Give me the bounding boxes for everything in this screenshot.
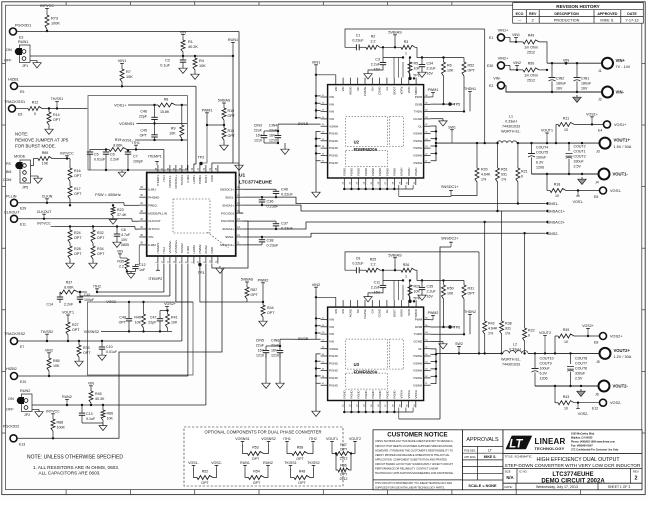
svg-text:VOSNS2-: VOSNS2- (168, 240, 172, 253)
U1 bottom pin ILIM2 (187, 256, 189, 264)
svg-text:VIN: VIN (341, 309, 345, 314)
capacitor C35 2.2uF (421, 280, 423, 287)
U2 left pin VIN (321, 96, 328, 98)
svg-text:5VBIAS: 5VBIAS (388, 253, 402, 257)
svg-text:330uF: 330uF (575, 372, 586, 376)
svg-text:RUN2: RUN2 (204, 245, 208, 253)
revision history table (513, 3, 644, 24)
svg-text:ITEMP1: ITEMP1 (156, 175, 160, 186)
wire ITH2 to U1 (97, 291, 164, 293)
svg-text:CLKIN: CLKIN (42, 194, 53, 198)
svg-text:VOUT2+: VOUT2+ (614, 348, 631, 353)
svg-text:16V: 16V (258, 349, 265, 353)
U3 top pin VIN (342, 300, 344, 307)
svg-text:100uF: 100uF (540, 367, 551, 371)
wire 5VDRV bus (417, 47, 464, 57)
wire SW node to L1 (436, 142, 497, 144)
resistor R30 10K (443, 280, 445, 285)
svg-text:CGND: CGND (413, 340, 423, 344)
U3 bottom pin PGND (386, 401, 388, 408)
svg-text:5VBIAS: 5VBIAS (388, 30, 402, 34)
U2 left pin PGND (321, 140, 328, 142)
svg-text:10K: 10K (447, 69, 454, 73)
U1 top pin ITEMP1 (157, 165, 159, 173)
U1 top pin PWM1 (199, 165, 201, 173)
svg-text:R54: R54 (253, 469, 260, 473)
svg-text:VOS1+: VOS1+ (114, 104, 127, 108)
svg-text:16V: 16V (271, 349, 278, 353)
svg-text:100K: 100K (57, 426, 66, 430)
terminal J6 VOUT2- (599, 381, 610, 392)
svg-text:5VBIAS: 5VBIAS (241, 278, 254, 282)
svg-text:R9: R9 (171, 127, 176, 131)
svg-text:SMOD: SMOD (414, 87, 418, 95)
resistor R89 10K (31, 159, 39, 166)
svg-text:R89: R89 (42, 151, 49, 155)
resistor R37 8.06K (60, 290, 78, 294)
U1 right pin SNS1- (236, 196, 244, 198)
svg-text:VOSNS2+: VOSNS2+ (174, 239, 178, 253)
svg-text:SNSDC2+: SNSDC2+ (441, 237, 459, 241)
svg-text:TP3: TP3 (198, 271, 205, 275)
svg-text:OPT: OPT (228, 114, 236, 118)
resistor R85 10K (47, 358, 51, 371)
svg-text:VIN: VIN (148, 235, 153, 239)
U2 right pin PWM (424, 96, 431, 98)
svg-text:FDMF6820A: FDMF6820A (354, 147, 378, 152)
svg-text:GND: GND (210, 174, 214, 182)
terminal E8 VOS2+ (600, 333, 607, 340)
svg-text:22pF: 22pF (139, 114, 148, 118)
svg-text:R15: R15 (228, 129, 235, 133)
svg-text:NOTE:: NOTE: (15, 132, 28, 137)
U3 right pin VSWH (424, 370, 431, 372)
svg-text:DISB: DISB (415, 325, 422, 329)
svg-text:AGND: AGND (349, 309, 353, 317)
resistor R34 OPT (91, 246, 95, 259)
svg-text:VSWH: VSWH (413, 369, 422, 373)
U2 bottom pin PGND (393, 178, 395, 185)
U3 top pin VCIN (408, 300, 410, 307)
U2 right pin VSWH (424, 140, 431, 142)
svg-text:2.2: 2.2 (371, 40, 376, 44)
wire THDN1 (431, 110, 464, 112)
U2 right pin OL (424, 125, 431, 127)
svg-text:PWM1: PWM1 (202, 108, 213, 112)
svg-text:C34: C34 (427, 62, 434, 66)
svg-text:R34: R34 (97, 247, 104, 251)
terminal J4 VOUT1- (599, 169, 610, 180)
svg-text:SHEET 1 OF 3: SHEET 1 OF 3 (608, 485, 631, 489)
svg-text:SNS2-: SNS2- (548, 232, 560, 236)
svg-text:0.22uF: 0.22uF (352, 262, 364, 266)
svg-text:VIN1: VIN1 (512, 33, 520, 37)
svg-text:VSWH: VSWH (414, 168, 418, 176)
svg-text:744301033: 744301033 (502, 125, 520, 129)
U2 bottom pin PGND (372, 178, 374, 185)
svg-text:VOSNS1: VOSNS1 (235, 437, 250, 441)
resistor R39 10 (554, 336, 556, 353)
svg-text:VIN2: VIN2 (312, 283, 320, 287)
capacitor C40 0.22uF (243, 188, 276, 190)
wire VOSNS1 to box (155, 122, 188, 124)
svg-text:R43: R43 (563, 395, 570, 399)
svg-text:GND: GND (210, 246, 214, 254)
wire SW2 node to L2 (436, 352, 503, 354)
svg-text:VOSNS2: VOSNS2 (261, 437, 276, 441)
svg-text:C2: C2 (165, 59, 170, 63)
resistor R19 8.06K (109, 148, 127, 152)
capacitor CIN5 22uF (265, 346, 267, 350)
wire VSWH bus right (431, 126, 436, 161)
svg-text:VOS1-: VOS1- (188, 461, 200, 465)
svg-text:VIN+: VIN+ (616, 58, 626, 63)
svg-text:L2: L2 (513, 343, 517, 347)
U3 bottom pin PGND (393, 401, 395, 408)
svg-text:TK/SS2: TK/SS2 (41, 330, 53, 334)
svg-text:COUT1: COUT1 (574, 150, 586, 154)
svg-text:2.2uF: 2.2uF (427, 289, 437, 293)
svg-text:0.33uH: 0.33uH (509, 348, 521, 352)
approvals box (463, 430, 504, 490)
Linear Technology logo (503, 430, 642, 490)
svg-text:R6: R6 (447, 64, 452, 68)
svg-text:OPT: OPT (298, 481, 306, 485)
wire PGOOD2 (17, 221, 248, 438)
U2 bottom pin PGND (350, 178, 352, 185)
svg-text:ITH2: ITH2 (309, 437, 317, 441)
resistor R5 10K (409, 58, 411, 63)
U2 bottom pin VSWH (401, 178, 403, 185)
terminal J1 VIN+ (602, 58, 613, 69)
wire U2 boot loop (345, 29, 485, 47)
capacitor COUT6 COUT7 COUT8 (570, 353, 572, 364)
svg-text:PGND: PGND (342, 168, 346, 176)
svg-text:330uF: 330uF (574, 160, 585, 164)
resistor R9 10K (181, 105, 183, 125)
U1 bottom pin GND (211, 256, 213, 264)
resistor R44 OPT (262, 302, 264, 305)
svg-text:CUSTOMER NOTICE: CUSTOMER NOTICE (387, 432, 447, 439)
svg-text:PGND: PGND (364, 168, 368, 176)
svg-text:8.06K: 8.06K (113, 144, 123, 148)
wire VOUT1 bus (517, 142, 600, 144)
resistor R14 OPT (48, 107, 50, 109)
U3 top pin SMOD (415, 300, 417, 307)
wire SNSAC1+ line (243, 205, 545, 211)
U1 top pin ILIM1 (187, 165, 189, 173)
U2 left pin PGND (321, 154, 328, 156)
resistor R18 10 (546, 173, 548, 175)
U2 top pin SMOD (415, 78, 417, 85)
svg-text:R88: R88 (57, 421, 64, 425)
svg-text:INTVCC: INTVCC (37, 221, 51, 225)
svg-text:0.23uF: 0.23uF (281, 227, 294, 231)
U2 bottom pin PGND (358, 178, 360, 185)
capacitor C10 0.01uF (101, 340, 103, 342)
svg-text:RUN2: RUN2 (62, 395, 72, 399)
svg-text:SW2: SW2 (455, 342, 463, 346)
svg-text:C37: C37 (281, 222, 288, 226)
svg-text:RUN1: RUN1 (240, 461, 250, 465)
svg-text:10K: 10K (447, 291, 454, 295)
svg-text:VOS2-: VOS2- (578, 412, 590, 416)
svg-text:INTVCC: INTVCC (148, 227, 160, 231)
svg-text:VOS2+: VOS2+ (610, 335, 623, 339)
svg-text:TK/SS1: TK/SS1 (180, 175, 184, 186)
svg-text:R25: R25 (370, 258, 377, 262)
svg-text:R8: R8 (164, 98, 169, 102)
svg-text:VIN: VIN (329, 340, 334, 344)
svg-text:SMOD: SMOD (414, 309, 418, 317)
U1 right pin SNS2- (236, 236, 244, 238)
svg-text:R58: R58 (297, 445, 304, 449)
U1 top pin GND (211, 165, 213, 173)
svg-text:OPT: OPT (340, 473, 348, 477)
U2 top pin GL (386, 78, 388, 85)
svg-text:OPT: OPT (140, 134, 148, 138)
svg-text:COUT4: COUT4 (536, 146, 548, 150)
svg-text:VSWH: VSWH (413, 383, 422, 387)
svg-text:16V: 16V (556, 87, 563, 91)
svg-text:0805: 0805 (121, 243, 129, 247)
capacitor C41 100pF (79, 291, 81, 293)
svg-text:WURTH EL.: WURTH EL. (501, 357, 521, 361)
capacitor C5 0.01uF (90, 150, 109, 153)
svg-text:1206: 1206 (540, 377, 548, 381)
svg-text:2.5V: 2.5V (574, 165, 582, 169)
net ITEMP2 label (157, 264, 159, 270)
resistor R42 4.64K (484, 222, 486, 321)
svg-text:PHASE: PHASE (363, 86, 367, 96)
svg-text:MIKE S.: MIKE S. (600, 19, 614, 23)
svg-text:R21: R21 (521, 170, 528, 174)
U1 exposed pad diagonal (207, 232, 228, 248)
svg-text:Fax: (408)434-0507: Fax: (408)434-0507 (571, 445, 593, 448)
svg-text:931: 931 (505, 327, 511, 331)
svg-text:PGND: PGND (357, 168, 361, 176)
wire PLLIN (17, 202, 124, 204)
svg-text:744301033: 744301033 (502, 362, 520, 366)
svg-text:VIN: VIN (334, 87, 338, 92)
svg-text:4.7uF: 4.7uF (121, 233, 131, 237)
svg-text:VSWH: VSWH (400, 168, 404, 176)
svg-text:J2: J2 (598, 98, 602, 102)
resistor R26 1 (401, 268, 415, 272)
U3 top pin NC (357, 300, 359, 307)
U2 left pin PGND (321, 133, 328, 135)
ground arrow VOUT1 (581, 173, 583, 175)
svg-text:U3: U3 (354, 362, 360, 367)
U3 bottom pin PGND (350, 401, 352, 408)
resistor R88 100K (51, 419, 55, 431)
svg-text:C45: C45 (140, 129, 147, 133)
svg-text:TK/SS2: TK/SS2 (307, 461, 319, 465)
U2 top pin VDRV (401, 78, 403, 85)
svg-text:C3: C3 (375, 58, 380, 62)
svg-text:VOUT1: VOUT1 (541, 129, 553, 133)
svg-text:R37: R37 (66, 281, 73, 285)
svg-text:40.3K: 40.3K (95, 397, 105, 401)
svg-text:OPTIONAL COMPONENTS FOR DUAL P: OPTIONAL COMPONENTS FOR DUAL PHASE CONVE… (204, 429, 321, 434)
svg-text:VOSNS2: VOSNS2 (84, 330, 99, 334)
svg-text:R7: R7 (126, 70, 131, 74)
wire U2 PGND bottom bus (344, 188, 413, 190)
svg-text:4.64K: 4.64K (488, 327, 498, 331)
U1 left pin FREQ (139, 204, 147, 206)
svg-text:TP4: TP4 (413, 296, 420, 300)
capacitor C34 2.2uF (421, 58, 423, 65)
svg-text:U2: U2 (354, 140, 360, 145)
resistor R49 1mOhm (504, 36, 510, 38)
wire VOUT1- bus (532, 173, 599, 175)
svg-text:VOUT1+: VOUT1+ (614, 138, 631, 143)
svg-text:16V: 16V (581, 87, 588, 91)
svg-text:100pF: 100pF (84, 298, 95, 302)
U3 right pin VSWH (424, 362, 431, 364)
svg-text:E5: E5 (18, 113, 22, 117)
resistor R87 OPT (245, 287, 249, 299)
svg-text:C38: C38 (267, 239, 274, 243)
U1 right pin SNSA2+ (236, 228, 244, 230)
svg-text:1210: 1210 (256, 354, 264, 358)
svg-text:Wednesday, July 17, 2013: Wednesday, July 17, 2013 (536, 485, 578, 489)
svg-text:VIN: VIN (329, 95, 334, 99)
wire U2 PGND left (316, 131, 321, 160)
wire DISB TP5 (431, 103, 455, 105)
svg-text:OFF: OFF (4, 59, 12, 63)
wire VSWH bus right U3 (431, 349, 436, 384)
wire VOSNS2+ to U1 (175, 264, 177, 302)
svg-text:VIN2: VIN2 (45, 348, 53, 352)
svg-text:VIN: VIN (334, 309, 338, 314)
resistor R28 OPT (68, 246, 72, 259)
resistor R45 40.3K (89, 391, 93, 403)
svg-text:R24: R24 (74, 231, 81, 235)
resistor R6 10K (443, 58, 445, 63)
svg-text:16V: 16V (427, 72, 434, 76)
svg-text:931: 931 (501, 173, 507, 177)
svg-text:PGND: PGND (329, 354, 339, 358)
U1 bottom pin TK/SS2 (181, 256, 183, 264)
svg-text:MODE/PLLIN: MODE/PLLIN (148, 211, 167, 215)
U3 right pin THDN (424, 333, 431, 335)
U1 bottom pin VOSNS2- (169, 256, 171, 264)
svg-text:STEP-DOWN CONVERTER WITH VERY: STEP-DOWN CONVERTER WITH VERY LOW DCR IN… (505, 463, 641, 468)
svg-text:2.2nF: 2.2nF (110, 158, 120, 162)
svg-text:ILIM1: ILIM1 (148, 187, 156, 191)
U1 top pin VOSNS1+ (175, 165, 177, 173)
svg-text:PGOOD2: PGOOD2 (3, 424, 19, 428)
svg-text:ITEMP2: ITEMP2 (156, 242, 160, 253)
svg-text:1210: 1210 (269, 139, 277, 143)
svg-text:REV: REV (529, 12, 537, 16)
svg-text:GL: GL (385, 86, 389, 90)
svg-text:E3: E3 (19, 36, 23, 40)
resistor R80 1mOhm (504, 64, 510, 66)
svg-text:TP6: TP6 (454, 326, 461, 330)
svg-text:VCIN: VCIN (407, 87, 411, 94)
svg-text:PCB DES.: PCB DES. (464, 448, 476, 452)
svg-text:Milpitas, CA 95035: Milpitas, CA 95035 (571, 437, 593, 440)
U2 top pin AGND (349, 78, 351, 85)
svg-text:2512: 2512 (340, 477, 348, 481)
wire PWM1 down (200, 125, 207, 165)
ground arrow U1 corner (232, 162, 239, 164)
svg-text:ITH2: ITH2 (162, 247, 166, 254)
U2 left pin VIN (321, 118, 328, 120)
svg-text:MODE: MODE (14, 155, 26, 159)
svg-text:BOOT: BOOT (392, 86, 396, 94)
ground arrow U1 bottom (212, 264, 220, 268)
svg-text:VIN: VIN (341, 87, 345, 92)
U3 right pin OL (424, 348, 431, 350)
svg-text:SUPPLIED FOR USE WITH LINEAR T: SUPPLIED FOR USE WITH LINEAR TECHNOLOGY … (375, 485, 445, 489)
svg-text:PGND: PGND (329, 139, 339, 143)
svg-text:100uF: 100uF (536, 156, 547, 160)
svg-text:RUN2: RUN2 (20, 389, 30, 393)
svg-text:ITEMP2: ITEMP2 (149, 277, 163, 281)
svg-text:1: 1 (405, 52, 407, 56)
wire VOSNS2 to U1 (169, 264, 171, 296)
U3 left pin PGND (321, 370, 328, 372)
U3 top pin CGND (379, 300, 381, 307)
svg-text:16V: 16V (374, 290, 381, 294)
svg-text:J4: J4 (595, 180, 599, 184)
svg-text:C14: C14 (46, 303, 53, 307)
resistor R38 931 (501, 211, 503, 321)
svg-text:R52: R52 (202, 469, 209, 473)
svg-text:0.23uF: 0.23uF (267, 244, 280, 248)
svg-text:16V: 16V (269, 134, 276, 138)
svg-text:1m Ohm: 1m Ohm (524, 74, 538, 78)
resistor R2 2.2 (359, 46, 366, 48)
svg-text:OPT: OPT (74, 252, 82, 256)
svg-text:THDN2: THDN2 (464, 310, 476, 314)
svg-text:ON: ON (6, 48, 12, 52)
wire U2 top pins (393, 62, 395, 78)
svg-text:16V: 16V (374, 68, 381, 72)
wire CIN3 CIN4 (264, 130, 278, 132)
U1 right pin SNSDC1+ (236, 188, 244, 190)
U3 right pin VSWH (424, 384, 431, 386)
U2 bottom pin VSWH (408, 178, 410, 185)
svg-text:22uF: 22uF (271, 344, 280, 348)
wire DISB TP6 (431, 326, 455, 328)
svg-text:OPT: OPT (228, 134, 236, 138)
U1 right pin SNSA1+ (236, 204, 244, 206)
svg-text:PGND: PGND (329, 132, 339, 136)
resistor R35 2.2 (126, 258, 128, 259)
svg-text:1%: 1% (501, 178, 507, 182)
resistor R7 10K (121, 66, 123, 69)
svg-text:CIN2: CIN2 (556, 77, 564, 81)
capacitor C8 4.7uF (116, 225, 118, 227)
svg-text:OL: OL (418, 124, 422, 128)
svg-text:VOUT2: VOUT2 (539, 331, 551, 335)
svg-text:TK/SS2: TK/SS2 (180, 243, 184, 254)
U3 bottom pin PGND (365, 401, 367, 408)
svg-text:E8: E8 (594, 340, 598, 344)
terminal E12 VOS2- (600, 399, 607, 406)
svg-text:0.33uH: 0.33uH (505, 120, 517, 124)
svg-text:PGND: PGND (392, 390, 396, 398)
svg-text:10K: 10K (42, 162, 49, 166)
svg-text:VSWH: VSWH (413, 354, 422, 358)
svg-text:CIN1: CIN1 (581, 77, 589, 81)
svg-text:TP2: TP2 (198, 155, 205, 159)
resistor R36 (336, 454, 338, 471)
